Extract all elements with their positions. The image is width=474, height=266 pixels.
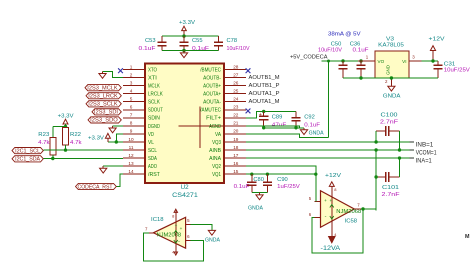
wire /RST to label [116,174,123,186]
svg-text:20: 20 [233,129,239,134]
power -12VA [329,237,335,243]
svg-text:C36: C36 [350,42,361,48]
svg-text:AOUTA+: AOUTA+ [203,92,221,98]
svg-text:-12VA: -12VA [321,245,342,252]
svg-text:1: 1 [130,64,133,69]
svg-text:14: 14 [128,169,134,174]
svg-text:VO: VO [378,59,385,64]
svg-text:C89: C89 [272,115,283,121]
svg-text:4: 4 [130,88,133,93]
svg-text:I2S3_SDI: I2S3_SDI [94,110,118,116]
svg-text:+: + [180,226,183,231]
regulator V3 KA78L05 [375,51,409,78]
svg-text:C101: C101 [382,185,399,191]
svg-text:+: + [175,223,178,228]
svg-text:0.1uF: 0.1uF [139,46,157,52]
svg-text:I2S3_SDO: I2S3_SDO [90,118,118,124]
no-connect X pin 28 [246,68,251,73]
pin 10 VL of U2 [123,141,145,143]
wire C100 left lead to AINB [375,131,377,142]
wire VI to +12V [421,60,438,62]
junction V3 GND at rail [390,76,393,79]
svg-text:AOUTA-: AOUTA- [203,100,221,106]
wire VCOM to opamp output vertical [375,150,377,210]
pin 28 /BMUTEC of U2 [224,69,246,71]
svg-text:LRCLK: LRCLK [148,92,163,98]
global label I2C1_SDA [12,156,43,162]
pin 13 ADO of U2 [123,165,145,167]
svg-text:+3.3V: +3.3V [88,136,104,142]
svg-text:+: + [329,198,332,203]
svg-text:VA: VA [215,132,221,138]
svg-text:C100: C100 [381,113,398,119]
wire pull-up top branch [53,126,66,128]
svg-text:16: 16 [233,161,239,166]
svg-text:13: 13 [128,161,134,166]
junction C80 top [250,172,253,175]
pin 4 V- of IC18 [175,248,177,253]
svg-text:CS4271: CS4271 [172,192,198,199]
svg-text:+12V: +12V [325,173,341,179]
svg-text:AOUTA1_P: AOUTA1_P [249,91,280,97]
svg-text:VCOM=1: VCOM=1 [416,151,437,157]
svg-text:VD: VD [148,132,154,138]
ground GNDA (IC18) [211,229,213,232]
wire VA feed vertical (+5V_CODECA down to VA) [328,61,330,137]
capacitor C31 [437,61,439,65]
junction bottom rail [182,49,185,52]
svg-text:I2S3_MCLK: I2S3_MCLK [87,86,118,92]
svg-text:7: 7 [357,203,360,208]
pin 12 SDA of U2 [123,157,145,159]
pin 9 VD of U2 [123,133,145,135]
capacitor C53 [161,36,163,42]
svg-text:VQ3: VQ3 [212,140,221,146]
no-connect X pin 1 [118,68,123,73]
svg-text:VQ1: VQ1 [212,172,221,178]
svg-text:SDA: SDA [148,156,157,162]
op-amp IC18 NJM2068 (mirrored) [153,217,185,248]
pin 26 AOUTB+ of U2 [224,85,246,87]
svg-text:V3: V3 [386,37,394,43]
power +12V (IC58) [331,185,333,187]
svg-text:-: - [178,239,180,245]
svg-text:10uF/10V: 10uF/10V [227,46,250,52]
capacitor C89 47uF polarized [263,111,265,116]
svg-text:VQ2: VQ2 [212,164,221,170]
svg-text:U2: U2 [181,184,190,191]
capacitor C80 [251,174,253,182]
svg-text:MCLK: MCLK [148,84,160,90]
svg-text:18: 18 [233,145,239,150]
junction R23 to SDA [51,157,54,160]
junction C90 top [266,172,269,175]
wire VA pin 20 to +5V_CODECA [246,134,329,137]
wire +5V_CODECA to regulator VO [322,60,358,62]
wire SDA [43,158,123,160]
resistor R23 [52,127,54,138]
svg-text:1: 1 [366,54,369,59]
svg-text:IC18: IC18 [151,217,164,223]
svg-text:11: 11 [129,145,134,150]
svg-text:XTO: XTO [148,67,157,73]
global label I2S3_LRCK [86,93,121,99]
svg-text:SCL: SCL [148,148,157,154]
svg-text:2.7nF: 2.7nF [382,192,401,198]
svg-text:VI: VI [402,59,406,64]
power +3.3V (VD VL) [108,141,123,143]
svg-text:25: 25 [233,88,239,93]
svg-text:SDOUT: SDOUT [148,108,164,114]
svg-text:8: 8 [172,214,175,219]
svg-text:10: 10 [128,137,134,142]
power line IC58 [331,191,333,228]
pin 11 SCL of U2 [123,149,145,151]
svg-text:23: 23 [233,105,239,110]
pin 15 VQ1 of U2 [224,173,246,175]
svg-text:GNDA: GNDA [248,205,263,211]
pin 5 +input of IC18 [186,224,191,226]
junction IC58 output/feedback [361,207,364,210]
svg-text:3: 3 [130,80,133,85]
svg-text:6: 6 [130,105,133,110]
svg-text:7: 7 [130,113,133,118]
svg-text:8: 8 [130,121,133,126]
global label I2S3_SCLK [86,101,121,107]
svg-text:/RST: /RST [148,172,161,178]
pin 27 AOUTB- of U2 [224,77,246,79]
capacitor C78 [218,36,220,42]
wire C100 right lead to VCOM [399,131,401,150]
pin 6 -input of IC58 [315,217,321,219]
wire SCL [43,149,123,151]
svg-text:6: 6 [187,234,190,239]
wire AINA line [246,157,414,159]
svg-text:0.1uF: 0.1uF [304,122,321,128]
wire VQ2 pin 16 [246,166,320,201]
wire C89/C92 ground rail [264,127,304,129]
svg-text:I2S3_LRCK: I2S3_LRCK [88,94,118,100]
svg-text:27: 27 [233,72,239,77]
svg-text:INB=1: INB=1 [416,143,434,149]
pin 20 VA of U2 [224,133,246,135]
svg-text:AGND: AGND [209,124,221,130]
wire IC18 +input to ground [191,225,212,230]
wire FILT+ pin 22 to C89/C92 [246,111,296,117]
pin 19 VQ3 of U2 [224,141,246,143]
global label I2S3_SDI [92,109,121,115]
capacitor C55 [183,36,185,42]
svg-text:26: 26 [233,80,239,85]
pin 21 AGND of U2 [224,125,246,127]
svg-text:-: - [325,213,327,219]
svg-text:C55: C55 [192,38,203,44]
svg-text:24: 24 [233,97,239,102]
global label I2S3_MCLK [85,85,121,91]
pin 7 output of IC58 [354,208,361,210]
ground arrow (top bank) [183,51,185,53]
svg-text:C92: C92 [304,115,315,121]
svg-text:DGND: DGND [148,124,160,130]
IC U2 CS4271 body [145,64,224,184]
global label I2S3_SDO [88,117,121,123]
wire IC18 feedback loop [144,233,204,261]
svg-text:GND: GND [386,65,391,75]
pin 23 /AMUTEC of U2 [224,109,246,111]
op-amp IC58 NJM2068 [321,191,355,228]
wire AINB line [246,141,414,143]
capacitor C90 [266,174,268,182]
svg-text:5: 5 [130,97,133,102]
svg-text:FILT+: FILT+ [206,116,221,122]
resistor R22 [65,126,67,129]
pin 8 V+ of IC58 [331,187,333,191]
svg-text:+5V_CODECA: +5V_CODECA [290,54,328,60]
svg-text:2: 2 [130,72,133,77]
pin 4 LRCLK of U2 [123,93,145,95]
pin 14 /RST of U2 [123,173,145,175]
junction C89 top [262,110,265,113]
wire regulator ground rail [343,77,438,79]
pin 1 VO of V3 [358,60,375,62]
svg-text:R22: R22 [70,132,81,138]
svg-text:9: 9 [130,129,133,134]
svg-text:C53: C53 [145,38,156,44]
svg-text:AOUTA1_M: AOUTA1_M [249,99,280,105]
svg-text:/BMUTEC: /BMUTEC [200,67,221,73]
power +12V (regulator input) [432,51,434,62]
svg-text:GNDA: GNDA [205,238,220,244]
junction VQ tie [314,172,317,175]
svg-text:AOUTB1_M: AOUTB1_M [249,75,280,81]
ground GNDA (regulator) [390,84,392,86]
wire C101 right lead to AINA [399,158,401,177]
svg-text:22: 22 [233,113,239,118]
wire ground bottom rail [162,50,219,52]
svg-text:I2C1_SCL: I2C1_SCL [15,148,40,154]
pin 25 AOUTA+ of U2 [224,93,246,95]
svg-text:0.1uF: 0.1uF [353,48,370,54]
svg-text:+: + [324,198,327,203]
svg-text:10uF/10V: 10uF/10V [318,48,342,54]
svg-text:C78: C78 [227,38,238,44]
junction C50 top [341,59,344,62]
U2 internal AGND line [179,125,224,127]
wire VQ node down to IC58 +input [315,174,317,201]
no-connect X pin 23 [246,109,251,114]
svg-text:KA78L05: KA78L05 [378,43,404,49]
junction R22 to SCL [64,148,67,151]
pin 16 VQ2 of U2 [224,165,246,167]
capacitor C50 [342,61,344,65]
svg-text:IC58: IC58 [345,218,358,224]
junction C36 bottom [359,76,362,79]
svg-text:SDIN: SDIN [148,116,160,122]
global label CODECA_RST [76,183,117,189]
svg-text:15: 15 [233,169,239,174]
svg-text:C50: C50 [331,42,342,48]
svg-text:+12V: +12V [429,36,445,42]
ground arrow (XTI) [102,71,104,73]
svg-text:4.7k: 4.7k [70,140,82,146]
svg-text:+3.3V: +3.3V [179,20,195,26]
svg-text:GNDA: GNDA [309,130,324,136]
svg-text:AINA: AINA [209,156,221,162]
junction top rail [182,34,185,37]
power +3.3V (top decoupling bank) [183,31,185,36]
junction C92 bottom [294,126,297,129]
pin 3 VI of V3 [409,60,421,62]
svg-text:19: 19 [233,137,239,142]
svg-text:21: 21 [233,121,239,126]
svg-text:NJM2068: NJM2068 [336,209,361,215]
svg-text:XTI: XTI [148,75,157,81]
pin 18 AINB of U2 [224,149,246,151]
svg-text:I2C1_SDA: I2C1_SDA [15,157,41,163]
pin 17 AINA of U2 [224,157,246,159]
svg-text:1uF/25V: 1uF/25V [277,184,300,190]
svg-text:2: 2 [385,79,388,84]
pin 2 GND of V3 [390,78,392,84]
svg-text:5: 5 [187,218,190,223]
svg-text:4.7k: 4.7k [38,140,50,146]
U2 internal vertical line [199,106,201,148]
capacitor C92 [295,111,297,117]
wire VQ1 pin 15 [246,173,316,175]
svg-text:8: 8 [334,187,337,192]
wire AGND pin 21 [246,126,304,128]
svg-text:SCLK: SCLK [148,100,160,106]
svg-text:VL: VL [148,140,154,146]
pin 5 +input of IC58 [315,201,321,203]
pin 6 SDOUT of U2 [123,109,145,111]
capacitor C36 [360,61,362,65]
svg-text:CODECA_RST: CODECA_RST [78,184,113,190]
pin 24 AOUTA- of U2 [224,101,246,103]
wire IC58 feedback loop [312,209,363,253]
svg-text:/AMUTEC: /AMUTEC [200,108,221,114]
pin 2 XTI of U2 [123,77,145,79]
pin 7 output of IC18 [149,232,154,234]
ground arrow (DGND pin 8) [113,125,123,127]
pin 6 -input of IC18 [186,240,191,242]
wire IC58 output up to VCOM [375,177,377,209]
svg-text:C90: C90 [277,177,288,183]
pin 8 V+ of IC18 [175,211,177,218]
junction pull-up branch [64,125,67,128]
ground arrow (ADO pin 13) [103,165,123,167]
svg-text:3: 3 [412,54,415,59]
svg-text:+3.3V: +3.3V [58,113,74,119]
svg-text:AINB: AINB [209,148,221,154]
pin 4 V- of IC58 [331,227,333,236]
pin 3 MCLK of U2 [123,85,145,87]
svg-text:R23: R23 [38,132,49,138]
pin 22 FILT+ of U2 [224,117,246,119]
wire IC58 output [361,208,376,210]
svg-text:ADO: ADO [148,164,157,170]
junction +12V stem [431,59,434,62]
svg-text:AOUTB1_P: AOUTB1_P [249,83,280,89]
svg-text:6: 6 [309,212,312,217]
junction +5V at VA drop [327,60,330,63]
svg-text:0.1uF: 0.1uF [234,184,251,190]
svg-text:INA=1: INA=1 [416,159,433,165]
wire pin 2 XTI to ground [103,71,124,77]
svg-text:M: M [465,234,470,240]
wire C80/C90 ground rail [252,192,268,194]
power line IC18 [175,217,177,248]
pin 8 DGND of U2 [123,125,145,127]
svg-text:38mA @ 5V: 38mA @ 5V [328,31,361,37]
wire VCOM line [246,149,414,151]
svg-text:GNDA: GNDA [383,93,401,99]
svg-text:7: 7 [145,227,148,232]
svg-text:2.7nF: 2.7nF [380,119,399,125]
pin 7 SDIN of U2 [123,117,145,119]
svg-text:AOUTB+: AOUTB+ [203,84,221,90]
svg-text:C80: C80 [253,177,264,183]
svg-text:+: + [259,112,262,118]
junction C36 top [359,59,362,62]
ground GNDA (C80/C90) [259,193,261,195]
wire +3.3V top rail [162,35,219,37]
svg-text:12: 12 [128,153,134,158]
svg-text:5: 5 [309,196,312,201]
svg-text:17: 17 [233,153,239,158]
pin 1 XTO of U2 [123,69,145,71]
global label I2C1_SCL [12,148,43,154]
svg-text:10uF/25V: 10uF/25V [444,68,470,74]
svg-text:28: 28 [233,64,239,69]
pin 5 SCLK of U2 [123,101,145,103]
ground GNDA (C89/C92) [303,128,305,130]
svg-text:I2S3_SCLK: I2S3_SCLK [88,102,118,108]
svg-text:AOUTB-: AOUTB- [203,75,221,81]
